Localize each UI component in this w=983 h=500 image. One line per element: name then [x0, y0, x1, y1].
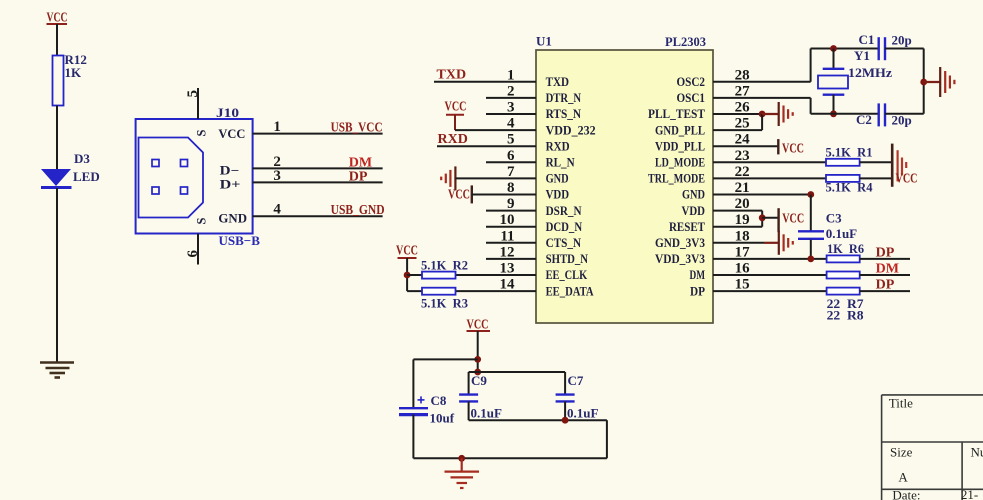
svg-text:VDD_PLL: VDD_PLL	[655, 139, 705, 153]
svg-text:4: 4	[273, 202, 281, 218]
svg-text:D+: D+	[220, 178, 241, 192]
svg-text:5: 5	[185, 90, 201, 98]
node junction pin26	[759, 111, 766, 118]
ground (pin18, bars decreasing right)	[764, 231, 793, 255]
capacitor C8 (electrolytic)	[399, 396, 428, 414]
wire pin20 VDD	[713, 210, 762, 212]
wire pin26 PLL_TEST	[713, 113, 762, 115]
svg-text:22 R8: 22 R8	[827, 308, 865, 323]
svg-text:GND: GND	[546, 172, 569, 186]
ground (crystal right, bars decreasing right)	[924, 67, 955, 97]
power flag VCC (pin24, bar style)	[778, 139, 804, 156]
svg-text:VCC: VCC	[448, 188, 470, 203]
svg-text:CTS_N: CTS_N	[546, 236, 582, 250]
wire pin2 stub	[486, 97, 536, 99]
wire C9 bottom lead	[468, 401, 470, 420]
USB pin square 3	[152, 187, 159, 194]
node junction pin19/20	[759, 214, 766, 221]
svg-text:VCC: VCC	[896, 172, 918, 187]
svg-text:VCC: VCC	[782, 142, 804, 157]
power flag VCC (top-left)	[47, 11, 68, 26]
wire pin14 through R3	[407, 290, 536, 292]
svg-text:DM: DM	[876, 262, 899, 277]
svg-text:VCC: VCC	[218, 127, 245, 141]
op-amp U1 PL2303 body	[536, 50, 713, 323]
svg-text:U1: U1	[536, 34, 552, 49]
resistor R3	[422, 288, 456, 295]
wire pin9 stub	[486, 210, 536, 212]
svg-text:SHTD_N: SHTD_N	[546, 252, 589, 266]
svg-text:1K R6: 1K R6	[827, 241, 864, 256]
ground (pin26, bars decreasing right)	[762, 102, 793, 126]
wire R1 to VCC bar	[860, 161, 893, 163]
svg-text:OSC2: OSC2	[677, 75, 706, 89]
wire pin18 GND_3V3	[713, 242, 764, 244]
wire VCC down	[477, 331, 479, 372]
capacitor C9	[459, 395, 478, 402]
resistor R12	[53, 56, 64, 106]
wire pin3 stub	[486, 113, 536, 115]
capacitor C1	[879, 37, 885, 60]
svg-text:PLL_TEST: PLL_TEST	[648, 107, 706, 121]
wire pin5 RXD	[437, 145, 536, 147]
wire pin26 to pin25	[761, 114, 763, 130]
LED D3	[41, 151, 100, 188]
wire pin2 D-	[253, 167, 383, 169]
wire pin15 DP to R8	[713, 290, 826, 292]
wire R12 to D3	[56, 106, 58, 170]
svg-text:DSR_N: DSR_N	[546, 204, 582, 218]
wire pin23 LD_MODE to R1	[713, 161, 826, 163]
wire R7 to DM	[860, 274, 910, 276]
svg-text:EE_CLK: EE_CLK	[546, 268, 588, 282]
capacitor C3	[798, 231, 824, 239]
node junction pin21	[807, 191, 814, 198]
svg-text:DM: DM	[349, 156, 372, 171]
power flag VCC (R1/R4, bar with decreasing bars)	[892, 144, 917, 187]
node junction crystal top	[830, 45, 837, 52]
svg-text:Y1: Y1	[854, 48, 870, 63]
power flag VCC (decoupling)	[467, 318, 491, 333]
svg-text:C1: C1	[859, 32, 875, 47]
svg-text:D3: D3	[74, 151, 90, 166]
svg-text:RL_N: RL_N	[546, 156, 575, 170]
svg-text:A: A	[898, 470, 908, 485]
wire pin10 stub	[486, 226, 536, 228]
svg-text:5.1K R3: 5.1K R3	[421, 296, 468, 311]
svg-text:Title: Title	[889, 396, 913, 411]
wire C1 to right rail	[885, 48, 924, 50]
svg-text:RXD: RXD	[438, 132, 468, 147]
wire pin8 VDD	[472, 194, 536, 196]
wire pin16 DM to R7	[713, 274, 826, 276]
svg-text:VCC: VCC	[782, 212, 804, 227]
svg-text:J10: J10	[216, 105, 239, 120]
wire pin1 VCC	[253, 133, 383, 135]
svg-text:RTS_N: RTS_N	[546, 107, 582, 121]
wire C7 bottom lead	[564, 401, 566, 420]
svg-text:USB_GND: USB_GND	[331, 203, 385, 218]
svg-text:USB−B: USB−B	[219, 233, 261, 248]
power flag VCC (pin8 VDD, bar style)	[448, 185, 472, 203]
svg-text:3: 3	[273, 168, 281, 184]
svg-text:GND: GND	[682, 188, 705, 202]
svg-text:VCC: VCC	[396, 244, 418, 259]
svg-text:21-: 21-	[961, 487, 978, 500]
svg-text:RXD: RXD	[546, 139, 570, 153]
crystal Y1	[818, 69, 848, 95]
svg-text:RESET: RESET	[669, 220, 706, 234]
wire D3 to ground	[56, 188, 58, 362]
wire R4 to VCC bar	[860, 177, 893, 179]
svg-text:C9: C9	[471, 373, 487, 388]
svg-text:5.1K R2: 5.1K R2	[421, 258, 468, 273]
wire pin21 GND	[713, 194, 811, 196]
svg-text:Size: Size	[890, 445, 913, 460]
svg-text:Date:: Date:	[892, 488, 920, 500]
capacitor C7	[556, 395, 575, 402]
svg-text:S: S	[195, 218, 209, 225]
svg-text:S: S	[195, 130, 209, 137]
resistor R2	[422, 272, 456, 279]
svg-text:0.1uF: 0.1uF	[826, 226, 857, 241]
svg-text:C8: C8	[431, 393, 447, 408]
svg-text:GND_3V3: GND_3V3	[655, 236, 705, 250]
wire pin3 D+	[253, 181, 383, 183]
wire crystal bottom rail left	[811, 113, 879, 115]
node junction ground tap	[458, 455, 465, 462]
power flag VCC (pin19/20, bar style)	[779, 208, 805, 232]
wire pin21 down to C3	[810, 195, 812, 233]
node junction right rail	[920, 79, 927, 86]
wire C9/C7 top rail	[469, 371, 565, 373]
resistor R6	[827, 255, 860, 262]
svg-text:LED: LED	[73, 169, 100, 184]
svg-text:D−: D−	[220, 164, 240, 178]
pin numbers left 1-14	[500, 67, 516, 292]
wire junction to VCC bar	[762, 217, 778, 219]
svg-text:12MHz: 12MHz	[848, 65, 892, 80]
power flag VCC (R2/R3 pull-ups)	[396, 244, 418, 292]
pin 5 stub (top)	[197, 88, 199, 119]
wire pin12 stub	[486, 258, 536, 260]
wire crystal top rail left	[811, 48, 879, 50]
svg-text:USB_VCC: USB_VCC	[331, 121, 383, 136]
svg-text:OSC1: OSC1	[677, 91, 706, 105]
svg-text:DP: DP	[876, 278, 895, 293]
resistor R4	[826, 175, 860, 182]
wire C8 top lead	[412, 359, 414, 408]
svg-text:5.1K R1: 5.1K R1	[826, 145, 873, 160]
svg-text:TXD: TXD	[437, 68, 467, 83]
svg-text:DP: DP	[690, 284, 705, 298]
svg-text:0.1uF: 0.1uF	[567, 406, 598, 421]
svg-text:GND_PLL: GND_PLL	[655, 123, 705, 137]
wire right drop	[606, 420, 608, 458]
svg-text:DP: DP	[876, 246, 895, 261]
wire pin27 OSC1	[713, 97, 811, 99]
wire pin1 TXD	[434, 81, 536, 83]
svg-text:C7: C7	[568, 373, 584, 388]
wire C8 bottom lead	[412, 415, 414, 459]
capacitor C2	[879, 103, 885, 126]
wire crystal bottom stub	[833, 95, 835, 114]
wire pin4 GND	[253, 215, 383, 217]
svg-text:EE_DATA: EE_DATA	[546, 284, 594, 298]
USB-B inner shape	[139, 138, 204, 218]
ground (pin7, bars decreasing left)	[441, 166, 455, 190]
svg-text:20p: 20p	[892, 33, 912, 48]
node junction C7 bottom	[562, 417, 569, 424]
svg-text:DTR_N: DTR_N	[546, 91, 582, 105]
svg-text:VDD_3V3: VDD_3V3	[655, 252, 705, 266]
wire pin22 TRL_MODE to R4	[713, 177, 826, 179]
wire VCC to R12	[56, 24, 58, 56]
USB pin square 2	[181, 160, 188, 167]
USB pin square 4	[181, 187, 188, 194]
wire C3 down to pin17 line	[810, 240, 812, 259]
wire pin24 VDD_PLL	[713, 145, 778, 147]
power flag VCC (pin4 VDD_232)	[445, 100, 467, 131]
wire pin28 up to crystal top rail	[810, 49, 812, 82]
wire C2 to right rail	[885, 113, 924, 115]
svg-text:TRL_MODE: TRL_MODE	[648, 172, 705, 186]
wire pin7 GND	[455, 177, 536, 179]
pin 6 stub (bottom)	[197, 234, 199, 265]
resistor R7	[827, 272, 860, 279]
svg-text:GND: GND	[218, 212, 247, 226]
USB pin square 1	[152, 160, 159, 167]
svg-text:PL2303: PL2303	[665, 34, 706, 49]
wire right rail vertical	[923, 49, 925, 114]
resistor R8	[827, 288, 860, 295]
pin numbers right 28-15	[735, 67, 751, 292]
svg-text:DP: DP	[349, 170, 368, 185]
svg-text:DCD_N: DCD_N	[546, 220, 583, 234]
svg-text:Number: Number	[971, 445, 983, 460]
svg-text:10uf: 10uf	[430, 411, 455, 426]
svg-text:VDD: VDD	[682, 204, 706, 218]
svg-text:TXD: TXD	[546, 75, 569, 89]
svg-text:1K: 1K	[65, 65, 83, 80]
wire pin27 down to crystal bottom rail	[810, 98, 812, 114]
node junction pin17	[807, 256, 814, 263]
svg-text:6: 6	[185, 250, 201, 258]
wire C9/C7 bottom rail	[469, 419, 607, 421]
title block frame	[882, 395, 983, 500]
svg-text:VDD: VDD	[546, 188, 570, 202]
wire pin6 stub	[486, 161, 536, 163]
wire crystal top stub	[833, 49, 835, 69]
wire bottom rail	[413, 457, 607, 459]
svg-text:LD_MODE: LD_MODE	[655, 156, 705, 170]
node junction (C9/C7 rail)	[474, 369, 481, 376]
wire pin20 to pin19	[761, 211, 763, 227]
svg-text:VDD_232: VDD_232	[546, 123, 596, 137]
wire to C8 branch	[413, 358, 477, 360]
wire R6 to DP	[860, 258, 910, 260]
node junction crystal bottom	[830, 110, 837, 117]
ground (earth, below decoupling)	[445, 458, 480, 488]
wire C9 top lead	[468, 372, 470, 395]
connector J10 USB-B body	[136, 119, 253, 234]
wire pin17 VDD_3V3 to R6	[713, 258, 826, 260]
ground (earth, below D3)	[40, 363, 74, 378]
svg-text:0.1uF: 0.1uF	[471, 406, 502, 421]
wire pin13 through R2	[407, 274, 536, 276]
svg-text:1: 1	[273, 119, 281, 135]
wire pin19 RESET	[713, 226, 762, 228]
node junction (VCC to R2)	[404, 272, 411, 279]
svg-text:5.1K R4: 5.1K R4	[826, 180, 873, 195]
wire pin4	[455, 129, 536, 131]
wire R8 to DP	[860, 290, 910, 292]
svg-text:C2: C2	[856, 112, 872, 127]
wire C7 top lead	[564, 372, 566, 395]
svg-text:DM: DM	[690, 268, 706, 282]
wire pin28 OSC2	[713, 81, 811, 83]
resistor R1	[826, 159, 860, 166]
wire pin11 stub	[486, 242, 536, 244]
svg-text:VCC: VCC	[445, 100, 467, 115]
node junction (C8 branch)	[474, 356, 481, 363]
wire pin25 GND_PLL	[713, 129, 762, 131]
svg-text:C3: C3	[826, 211, 842, 226]
